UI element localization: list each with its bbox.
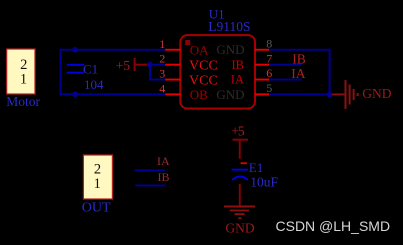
power +5 (top of E1) [231,124,248,159]
svg-text:5: 5 [266,81,272,95]
wire pin2 net [149,64,166,66]
svg-text:Motor: Motor [6,94,40,109]
wire net IB (floating, bottom) [135,185,165,187]
svg-text:E1: E1 [249,160,263,175]
pin 6 stub [255,79,269,81]
wire left vertical [60,49,62,96]
wire pin1 net (top horizontal) [60,49,166,51]
capacitor E1 (polarized) [232,169,249,180]
capacitor C1 [67,64,84,74]
svg-text:104: 104 [84,77,104,92]
pin 8 stub [255,49,269,51]
svg-text:IA: IA [291,66,305,81]
op IC U1 L9110S body [180,35,255,108]
junction pin2 [147,62,153,68]
svg-text:IA: IA [231,73,244,87]
svg-text:GND: GND [225,220,254,235]
svg-text:1: 1 [20,71,27,87]
svg-text:IB: IB [292,51,306,66]
svg-text:6: 6 [266,66,272,80]
svg-text:3: 3 [159,67,165,81]
svg-text:1: 1 [159,37,165,51]
svg-text:C1: C1 [83,62,98,77]
svg-text:+5: +5 [116,58,131,73]
pin 1 stub [165,49,180,51]
svg-text:10uF: 10uF [250,175,278,190]
ground GND right (sideways) [332,80,392,109]
junction top [72,47,78,53]
svg-text:IB: IB [232,58,245,72]
junction bottom [72,92,78,98]
polarity plus marker [241,162,247,164]
wire pin8-pin5 vertical [329,49,331,96]
pin 3 stub [165,79,180,81]
svg-text:OB: OB [190,87,208,102]
svg-text:OUT: OUT [82,200,111,215]
wire net IA (floating, top) [135,169,166,171]
pin 4 stub [165,93,180,95]
svg-text:IA: IA [157,154,170,168]
wire pin4 net (bottom horizontal) [60,93,166,95]
wire E1 to ground [239,184,241,206]
power +5 (left, at pin 2) [116,58,149,73]
svg-text:CSDN @LH_SMD: CSDN @LH_SMD [276,218,391,234]
svg-text:IB: IB [158,170,170,184]
svg-text:VCC: VCC [189,59,218,74]
pin1 marker dot [185,40,190,45]
wire pin8 horizontal [269,49,331,51]
svg-text:+5: +5 [231,124,245,139]
wire pin2-pin3 vertical [149,65,151,80]
svg-text:GND: GND [362,86,391,101]
svg-text:L9110S: L9110S [208,19,250,34]
svg-text:4: 4 [159,81,165,95]
svg-text:GND: GND [216,87,244,102]
svg-text:2: 2 [159,52,165,66]
svg-text:8: 8 [266,36,272,50]
connector J Motor (yellow box) [7,49,35,94]
junction pin5/pin8 [327,92,333,98]
wire pin5 horizontal [269,93,331,95]
svg-text:OA: OA [190,42,209,57]
wire pin3 net [149,79,166,81]
connector J OUT (yellow box) [83,155,112,199]
svg-text:7: 7 [266,51,272,65]
pin 5 stub [255,93,269,95]
svg-text:GND: GND [216,42,244,57]
pin 7 stub [255,64,269,66]
wire pin7 stub net IB [269,64,302,66]
wire pin6 stub net IA [269,79,302,81]
ground GND bottom [224,206,255,236]
pin 2 stub [165,64,180,66]
svg-text:1: 1 [94,176,101,192]
